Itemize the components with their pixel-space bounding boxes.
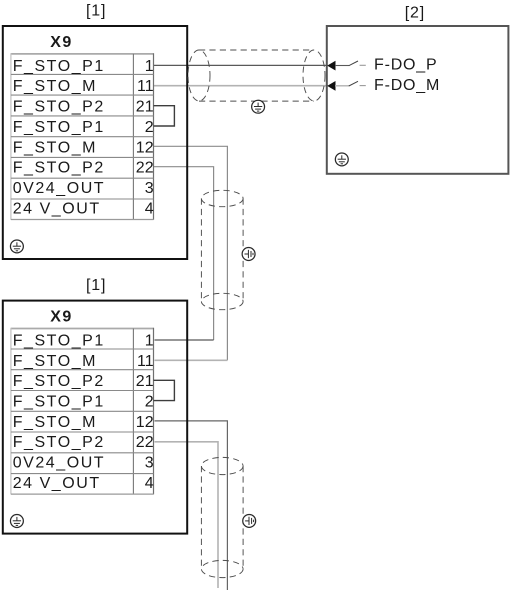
- shield end top: [201, 457, 243, 474]
- shield earth top cable: [252, 100, 265, 113]
- arrow input F-DO_P: [327, 61, 335, 71]
- svg-text:F-DO_P: F-DO_P: [374, 57, 437, 74]
- svg-text:F-DO_M: F-DO_M: [374, 77, 440, 94]
- shield end bottom: [201, 560, 243, 577]
- wire pin22 box1 -> pin1 box1b: [154, 167, 214, 340]
- ground PE symbol box2: [335, 153, 348, 166]
- shield end left: [188, 50, 210, 101]
- wire pin22 box1b down: [155, 442, 219, 588]
- wire pin11 box1 -> F-DO_M: [154, 85, 328, 87]
- wire pin1 box1 -> F-DO_P: [154, 64, 328, 66]
- wire pin12 box1b down: [155, 421, 228, 590]
- shield earth bottom cable: [243, 514, 256, 527]
- shield earth middle cable: [242, 248, 255, 261]
- shield end bottom: [201, 293, 243, 309]
- shield end right: [303, 50, 325, 101]
- wire pin12 box1 -> pin11 box1b: [154, 146, 228, 360]
- box [2]: [327, 26, 509, 174]
- arrow input F-DO_M: [327, 81, 335, 91]
- shield body: [199, 49, 314, 51]
- shield end top: [201, 190, 243, 206]
- svg-text:[2]: [2]: [405, 5, 425, 22]
